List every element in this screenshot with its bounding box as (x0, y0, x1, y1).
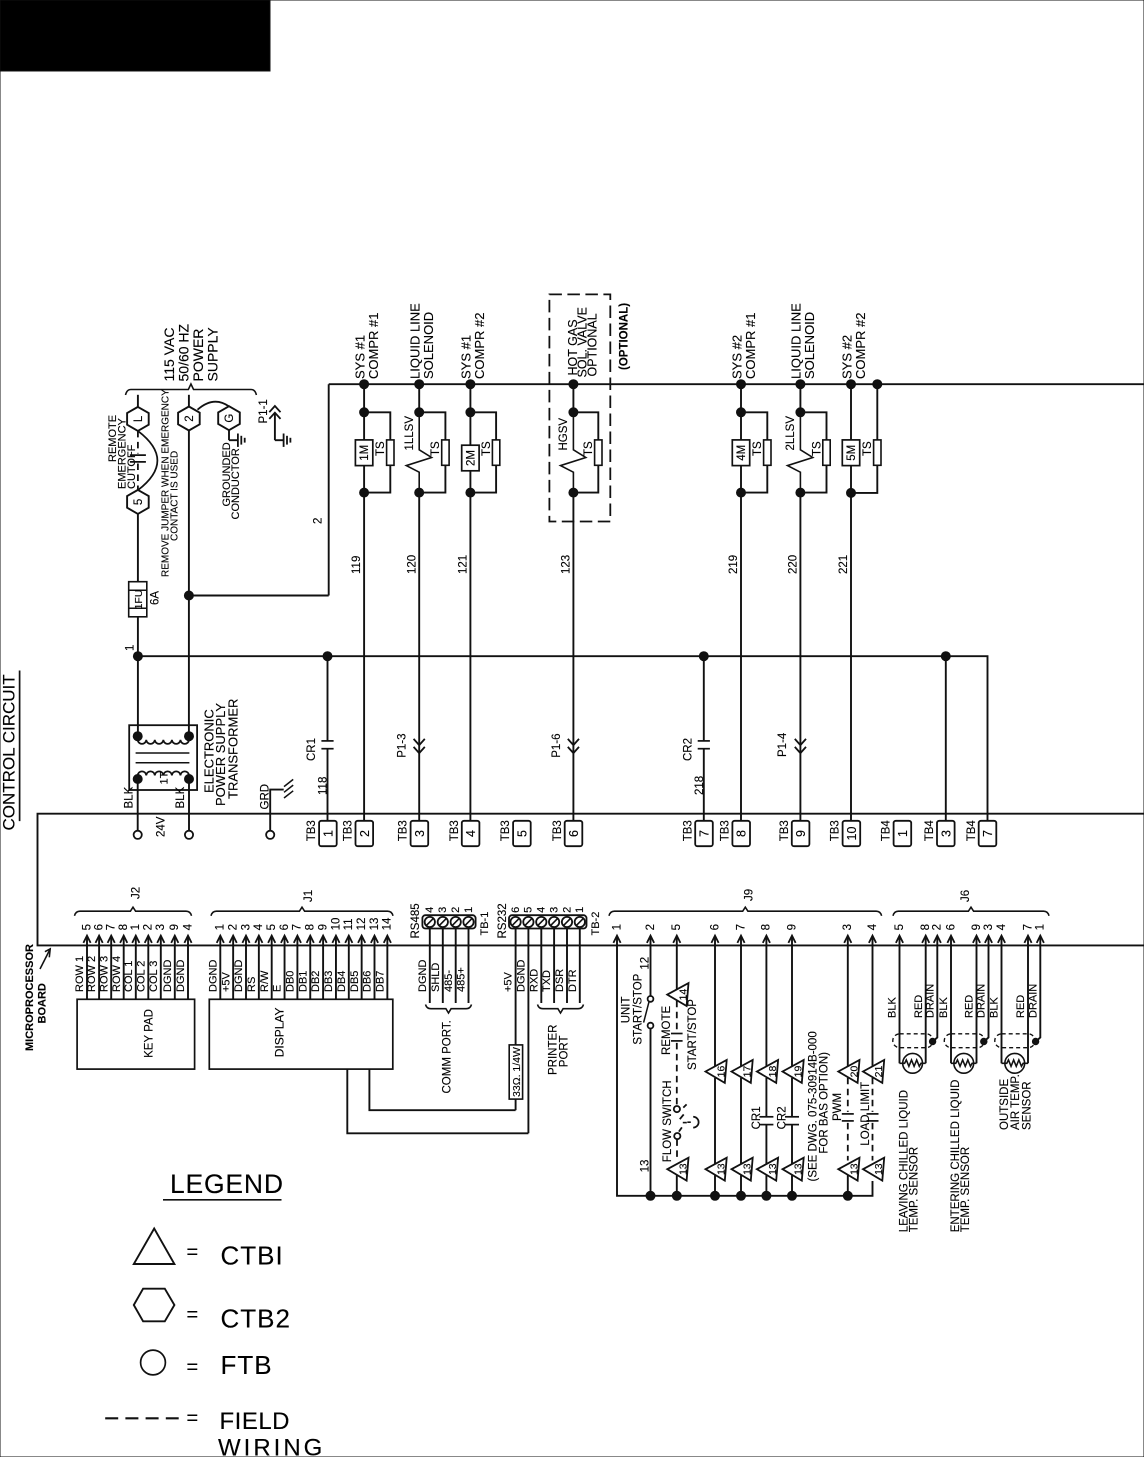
svg-text:13: 13 (742, 1163, 754, 1175)
terminal G (CTB2) (218, 406, 240, 430)
svg-text:8: 8 (761, 924, 773, 930)
terminal CTB1 17 (732, 1060, 753, 1083)
svg-text:P1-3: P1-3 (397, 734, 409, 758)
node pwm bus (843, 1191, 852, 1200)
svg-text:SUPPLY: SUPPLY (205, 327, 221, 382)
svg-text:DB0: DB0 (285, 971, 297, 992)
wire bus to split (363, 384, 365, 412)
svg-text:1: 1 (215, 924, 227, 930)
svg-text:ROW 4: ROW 4 (111, 956, 123, 992)
svg-text:TB3: TB3 (682, 820, 694, 841)
terminal CTB1 16 (706, 1060, 727, 1083)
svg-text:2M: 2M (465, 450, 477, 466)
screw terminal TB-1 pin 2 (451, 917, 461, 927)
contactor coil 4M (740, 412, 742, 440)
LOAD LIMIT contact (field) (872, 1078, 874, 1112)
node CR1/bus1 (323, 652, 332, 661)
wire TS parallel path 2M (470, 412, 496, 492)
svg-text:2: 2 (227, 924, 239, 930)
svg-text:219: 219 (728, 555, 740, 574)
svg-text:ROW 3: ROW 3 (98, 956, 110, 992)
svg-text:DRAIN: DRAIN (976, 984, 988, 1018)
connector J2 brace (75, 907, 192, 916)
screw terminal TB-1 pin 1 (463, 917, 473, 927)
node split 4M (737, 408, 746, 417)
svg-text:221: 221 (838, 555, 850, 574)
svg-text:WIRING: WIRING (218, 1435, 325, 1457)
svg-text:14: 14 (677, 989, 689, 1001)
capacitor CR1 (765, 1078, 767, 1117)
terminal 2 (CTB2) (178, 407, 200, 431)
legend CTB1 triangle (134, 1229, 175, 1265)
terminal CTB1 13 (863, 1158, 884, 1181)
wire RXD (540, 929, 542, 1004)
resistor TS (4M) (764, 440, 771, 465)
svg-text:TB4: TB4 (881, 820, 893, 842)
svg-text:CONTROL CIRCUIT: CONTROL CIRCUIT (0, 674, 19, 830)
svg-text:TB3: TB3 (343, 820, 355, 841)
terminal TB3-8 (732, 821, 750, 846)
node rejoin 2LLSV (796, 488, 805, 497)
thermistor (903, 1053, 923, 1073)
svg-text:BLK: BLK (989, 997, 1001, 1018)
svg-text:RED: RED (964, 995, 976, 1018)
terminal FTB 24V left (134, 831, 142, 839)
wire 12 unit start/stop (650, 945, 652, 996)
svg-text:G: G (224, 414, 236, 423)
svg-text:8: 8 (735, 830, 749, 837)
wire TS parallel path HGSV (573, 412, 598, 492)
svg-text:8: 8 (118, 924, 130, 930)
svg-text:P1-4: P1-4 (777, 732, 789, 757)
terminal CTB1 13 (flow) (667, 1158, 688, 1181)
svg-text:=: = (187, 1357, 199, 1379)
node bus (737, 1191, 746, 1200)
svg-text:13: 13 (640, 1160, 652, 1173)
svg-text:6: 6 (567, 830, 581, 837)
svg-text:13: 13 (369, 918, 381, 931)
svg-text:FOR BAS OPTION): FOR BAS OPTION) (819, 1052, 831, 1154)
svg-text:1T: 1T (159, 771, 171, 784)
node split 1LLSV (415, 408, 424, 417)
svg-text:CONTACT IS USED: CONTACT IS USED (170, 451, 181, 541)
terminal TB3-10 (843, 821, 861, 846)
svg-text:DB1: DB1 (297, 971, 309, 992)
svg-text:=: = (187, 1304, 199, 1326)
resistor TS (2M) (492, 440, 499, 465)
node rejoin 1M (360, 488, 369, 497)
fuse 1FU (129, 582, 147, 617)
svg-text:20: 20 (848, 1066, 860, 1078)
terminal FTB 24V right (185, 831, 193, 839)
svg-text:12: 12 (356, 918, 368, 931)
resistor TS (2LLSV) (823, 440, 830, 465)
terminal TB4-3 (937, 821, 955, 846)
emergency contact (field wiring) (137, 431, 139, 454)
svg-text:1: 1 (321, 830, 335, 837)
svg-text:13: 13 (848, 1163, 860, 1175)
svg-text:6: 6 (93, 924, 105, 930)
terminal L (CTB2) (127, 407, 149, 431)
svg-text:2: 2 (184, 415, 196, 421)
bus wire 1 (138, 656, 988, 821)
svg-text:3: 3 (437, 907, 449, 913)
svg-text:118: 118 (318, 777, 330, 795)
node bus/2M (466, 380, 475, 389)
svg-text:7: 7 (292, 924, 304, 930)
svg-text:1: 1 (611, 924, 623, 930)
svg-text:TB3: TB3 (720, 820, 732, 841)
node drain/shield (981, 1038, 987, 1044)
svg-text:TXD: TXD (541, 970, 553, 992)
svg-text:R/W: R/W (259, 970, 271, 992)
svg-text:9: 9 (317, 924, 329, 930)
wire +5V to resistor (515, 929, 517, 1045)
svg-text:5: 5 (515, 830, 529, 837)
svg-text:5: 5 (894, 924, 906, 930)
wire 2 vertical to top bus (328, 384, 330, 595)
svg-text:P1-6: P1-6 (551, 734, 563, 758)
svg-text:TS: TS (375, 441, 387, 456)
terminal CTB1 13 (732, 1158, 753, 1181)
svg-text:218: 218 (694, 776, 706, 795)
thermistor (1005, 1053, 1025, 1073)
contactor coil 5M (850, 384, 852, 440)
svg-text:7: 7 (981, 830, 995, 837)
optional dashed enclosure HGSV (549, 294, 610, 521)
svg-text:485-: 485- (443, 970, 455, 992)
node bus (788, 1191, 797, 1200)
node on wire 2 (184, 591, 193, 600)
svg-text:19: 19 (793, 1066, 805, 1078)
svg-text:(OPTIONAL): (OPTIONAL) (619, 303, 631, 370)
svg-text:3: 3 (548, 907, 560, 913)
microprocessor board outline (38, 814, 1144, 946)
svg-text:RS485: RS485 (410, 903, 422, 938)
terminal TB3-1 (319, 821, 337, 846)
svg-text:3: 3 (983, 924, 995, 930)
svg-text:5: 5 (133, 499, 145, 505)
svg-text:RED: RED (1015, 995, 1027, 1018)
node drain/shield (929, 1038, 935, 1044)
svg-text:L: L (133, 415, 145, 422)
svg-text:FTB: FTB (221, 1350, 273, 1380)
svg-text:J9: J9 (743, 889, 755, 901)
svg-text:J6: J6 (960, 890, 972, 902)
svg-text:1M: 1M (359, 445, 371, 461)
svg-text:2: 2 (313, 518, 325, 524)
svg-text:TB3: TB3 (779, 820, 791, 841)
node flow/bus (672, 1191, 681, 1200)
terminal 5 (CTB2) (127, 490, 149, 514)
transformer 1T box (129, 725, 197, 790)
svg-text:5: 5 (523, 907, 535, 913)
svg-text:2: 2 (561, 907, 573, 913)
terminal CTB1 18 (757, 1060, 778, 1083)
node start/stop bus (646, 1191, 655, 1200)
svg-text:21: 21 (873, 1066, 885, 1078)
svg-text:TB3: TB3 (306, 820, 318, 841)
svg-text:1: 1 (125, 645, 137, 651)
svg-text:RXD: RXD (528, 969, 540, 992)
wire DSR (566, 929, 568, 1004)
wire DGND (429, 929, 431, 1004)
svg-text:4M: 4M (736, 445, 748, 461)
terminal CTB1 14 (667, 983, 688, 1006)
node bus (711, 1191, 720, 1200)
node bus (762, 1191, 771, 1200)
wire secondary right to terminal (188, 779, 190, 831)
thermistor (954, 1053, 974, 1073)
node bus/4M (737, 380, 746, 389)
svg-text:UNIT: UNIT (620, 996, 632, 1023)
svg-text:3: 3 (155, 924, 167, 930)
svg-text:1: 1 (896, 830, 910, 837)
svg-text:+5V: +5V (220, 971, 232, 992)
svg-text:6A: 6A (150, 591, 162, 605)
svg-text:REMOTE: REMOTE (661, 1005, 673, 1055)
svg-text:13: 13 (793, 1163, 805, 1175)
solenoid coil HGSV (561, 417, 586, 489)
flow switch (field) (674, 1106, 680, 1112)
jumper arc (138, 431, 158, 490)
svg-text:TS: TS (811, 441, 823, 456)
svg-text:BLK: BLK (887, 997, 899, 1018)
svg-text:7: 7 (1022, 924, 1034, 930)
svg-text:9: 9 (794, 830, 808, 837)
svg-text:3: 3 (240, 924, 252, 930)
solenoid coil 2LLSV (788, 417, 813, 489)
svg-text:TS: TS (752, 441, 764, 456)
terminal TB3-3 (411, 821, 429, 846)
wire DGND down (527, 929, 529, 1134)
svg-text:1LLSV: 1LLSV (404, 416, 416, 451)
svg-text:4: 4 (464, 830, 478, 837)
wire J9 pin to CTB1 18 (765, 945, 767, 1066)
PWM contact (field) (847, 1078, 849, 1112)
screw terminal TB-1 pin 3 (438, 917, 448, 927)
svg-text:3: 3 (939, 830, 953, 837)
svg-text:DTR: DTR (567, 969, 579, 992)
svg-text:=: = (187, 1242, 199, 1264)
wire SHLD (442, 929, 444, 1004)
svg-text:COMPR #1: COMPR #1 (743, 313, 758, 379)
node drain/shield (1032, 1038, 1038, 1044)
svg-text:TB-1: TB-1 (479, 912, 491, 936)
svg-text:TB3: TB3 (398, 820, 410, 841)
svg-text:12: 12 (640, 957, 652, 970)
node split 1M (360, 408, 369, 417)
svg-text:123: 123 (561, 555, 573, 574)
svg-text:BLK: BLK (175, 786, 187, 808)
svg-text:START/STOP: START/STOP (632, 973, 644, 1044)
svg-text:TS: TS (481, 441, 493, 456)
svg-text:=: = (187, 1408, 199, 1430)
svg-text:COL 1: COL 1 (123, 961, 135, 992)
svg-text:DRAIN: DRAIN (924, 984, 936, 1018)
svg-text:DGND: DGND (233, 960, 245, 992)
svg-text:START/STOP: START/STOP (687, 999, 699, 1070)
wire J9 pin to CTB1 16 (714, 945, 716, 1066)
svg-text:SOLENOID: SOLENOID (421, 312, 436, 379)
svg-text:4: 4 (424, 907, 436, 913)
legend field wiring dashes (105, 1417, 179, 1419)
svg-text:CR2: CR2 (777, 1106, 789, 1129)
svg-text:E: E (272, 985, 284, 992)
wire TS parallel path 1M (364, 412, 390, 492)
wire 219 to TB3-8 (740, 493, 742, 821)
chassis ground hatching (284, 791, 293, 798)
node rejoin 2M (466, 488, 475, 497)
node bus/1M (360, 380, 369, 389)
svg-text:DRAIN: DRAIN (1027, 984, 1039, 1018)
cable shield (field) (995, 1034, 1035, 1048)
svg-text:220: 220 (788, 555, 800, 574)
wire 121 to TB3-4 (469, 493, 471, 821)
svg-text:J2: J2 (131, 887, 143, 899)
wire J9-5 to CTB1 14 (676, 945, 678, 989)
wire hexagon 2 down to node (188, 431, 190, 596)
svg-text:MICROPROCESSOR: MICROPROCESSOR (24, 944, 36, 1051)
wire 485- (455, 929, 457, 1004)
header black block (0, 0, 270, 71)
svg-text:CR2: CR2 (682, 738, 694, 761)
arc terminal 2 to G (198, 402, 230, 410)
wire 120 with connector P1-3 to TB3-3 (418, 489, 420, 821)
wire J9 pin to CTB1 20 (847, 945, 849, 1066)
svg-text:SOLENOID: SOLENOID (802, 312, 817, 379)
svg-text:1FU: 1FU (133, 590, 145, 610)
terminal TB3-9 (792, 821, 810, 846)
svg-text:P1-1: P1-1 (258, 399, 270, 423)
svg-text:5: 5 (266, 924, 278, 930)
switch unit start/stop (648, 996, 654, 1002)
capacitor CR2 wire 218 (703, 656, 705, 741)
svg-text:6: 6 (279, 924, 291, 930)
svg-text:COL 2: COL 2 (135, 961, 147, 992)
terminal TB4-1 (894, 821, 912, 846)
svg-text:DGND: DGND (175, 960, 187, 992)
ground for P1-1 (283, 434, 285, 447)
svg-text:LEGEND: LEGEND (170, 1169, 284, 1199)
svg-text:OPTIONAL: OPTIONAL (586, 313, 600, 376)
resistor TS (5M) from bus (876, 384, 878, 440)
svg-text:11: 11 (343, 918, 355, 930)
brace comm port (426, 1005, 472, 1014)
screw terminal TB-2 pin 4 (536, 917, 546, 927)
brace printer port (538, 1005, 584, 1014)
svg-text:TB-2: TB-2 (590, 912, 602, 936)
cable shield (field) (944, 1034, 984, 1048)
svg-text:4: 4 (253, 923, 265, 930)
terminal FTB GRD (266, 831, 274, 839)
transformer core (136, 752, 190, 754)
svg-text:HGSV: HGSV (558, 418, 570, 451)
svg-text:PORT: PORT (559, 1035, 571, 1067)
node TB4-3/bus1 (941, 652, 950, 661)
svg-text:FIELD: FIELD (220, 1408, 291, 1435)
node 1FU/bus1 (133, 652, 142, 661)
svg-text:4: 4 (867, 923, 879, 930)
svg-text:LOAD LIMIT: LOAD LIMIT (860, 1082, 872, 1146)
terminal CTB1 13 (838, 1158, 859, 1181)
node rejoin 1LLSV (415, 488, 424, 497)
svg-text:DB6: DB6 (362, 971, 374, 992)
screw terminal TB-2 pin 1 (575, 917, 585, 927)
svg-text:2: 2 (143, 924, 155, 930)
svg-text:TS: TS (430, 441, 442, 456)
terminal TB3-4 (462, 821, 480, 846)
terminal TB3-5 (513, 821, 531, 846)
svg-text:CUTOFF: CUTOFF (126, 444, 138, 489)
svg-text:DB4: DB4 (336, 971, 348, 992)
screw terminal TB-2 pin 6 (510, 917, 520, 927)
wire TS parallel path 2LLSV (800, 412, 826, 492)
svg-text:CTB2: CTB2 (221, 1304, 291, 1334)
svg-text:+5V: +5V (503, 971, 515, 992)
wire DTR (579, 929, 581, 1004)
wire down to CTB1 13 (740, 1078, 742, 1165)
svg-text:9: 9 (786, 924, 798, 930)
svg-text:COMPR #2: COMPR #2 (853, 313, 868, 379)
wire GRD to chassis ground (270, 790, 284, 831)
solenoid coil 1LLSV (406, 417, 431, 489)
svg-text:485+: 485+ (456, 967, 468, 992)
contactor coil 2M (469, 412, 471, 445)
wire 123 with connector P1-6 to TB3-6 (572, 489, 574, 821)
node bus/5M (847, 380, 856, 389)
svg-text:1: 1 (463, 907, 475, 913)
svg-text:2: 2 (358, 830, 372, 837)
wire J9 pin to CTB1 21 (872, 945, 874, 1066)
wire 485+ (468, 929, 470, 1004)
wire TXD (553, 929, 555, 1004)
svg-text:14: 14 (382, 917, 394, 930)
resistor 33 ohm 1/4W (509, 1045, 522, 1099)
wire bus1 to TB4-3 (945, 656, 947, 821)
resistor TS (1M) (387, 440, 394, 465)
svg-text:DGND: DGND (417, 960, 429, 992)
terminal TB4-7 (979, 821, 997, 846)
svg-text:120: 120 (406, 555, 418, 574)
screw terminal TB-2 pin 5 (523, 917, 533, 927)
svg-text:CONDUCTOR: CONDUCTOR (230, 448, 242, 519)
display box (209, 999, 392, 1069)
svg-text:9: 9 (169, 924, 181, 930)
svg-text:SHLD: SHLD (430, 963, 442, 992)
svg-text:KEY PAD: KEY PAD (144, 1009, 156, 1058)
svg-text:TB3: TB3 (449, 820, 461, 841)
svg-text:3: 3 (413, 830, 427, 837)
terminal TB3-7 (695, 821, 713, 846)
svg-text:COL 3: COL 3 (148, 961, 160, 992)
svg-text:TRANSFORMER: TRANSFORMER (226, 699, 241, 799)
wire 221 to TB3-10 (850, 493, 852, 821)
wire pwm triangle to bus (847, 1175, 849, 1196)
svg-text:13: 13 (716, 1163, 728, 1175)
connector J1 brace (211, 907, 393, 916)
contactor coil 1M (363, 412, 365, 440)
terminal CTB1 13 (706, 1158, 727, 1181)
svg-text:7: 7 (106, 924, 118, 930)
svg-text:6: 6 (945, 924, 957, 930)
legend CTB2 hexagon (134, 1289, 175, 1322)
capacitor CR2 (791, 1078, 793, 1117)
svg-text:SENSOR: SENSOR (1021, 1081, 1033, 1130)
top supply bus (329, 383, 1144, 385)
svg-text:5: 5 (81, 924, 93, 930)
svg-text:TB3: TB3 (552, 820, 564, 841)
